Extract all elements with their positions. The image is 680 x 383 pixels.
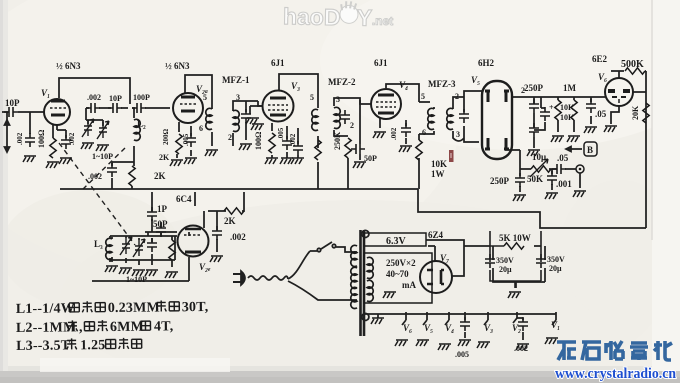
svg-text:6MM: 6MM [110,320,144,335]
svg-text:V₇: V₇ [440,253,449,263]
svg-text:3: 3 [456,130,460,139]
svg-text:V₃: V₃ [484,323,493,333]
svg-text:V₅: V₅ [424,323,433,333]
svg-text:250P: 250P [524,83,544,93]
svg-text:6J1: 6J1 [374,58,388,68]
svg-text:,: , [79,320,83,335]
svg-text:2: 2 [350,121,354,130]
svg-text:10P: 10P [5,98,20,108]
svg-text:2: 2 [228,133,232,142]
svg-text:mA: mA [402,280,416,290]
svg-text:1P: 1P [157,204,168,214]
svg-text:350V: 350V [496,256,514,265]
svg-text:V₆: V₆ [598,72,607,82]
svg-text:250V×2: 250V×2 [386,258,416,268]
svg-text:30T,: 30T, [182,300,209,315]
svg-text:½ 6N3: ½ 6N3 [56,61,81,71]
svg-text:6C4: 6C4 [176,194,192,204]
svg-text:2: 2 [521,86,525,95]
svg-text:10K: 10K [560,113,575,122]
svg-text:.002: .002 [390,127,398,140]
svg-text:.05: .05 [557,153,569,163]
svg-text:6: 6 [422,128,426,137]
svg-text:2K: 2K [154,171,166,181]
svg-text:250P: 250P [490,176,510,186]
svg-text:+: + [549,103,554,112]
svg-text:2K: 2K [159,153,170,162]
svg-text:250K: 250K [333,131,342,150]
svg-text:1.25: 1.25 [80,338,105,353]
svg-text:40~70: 40~70 [386,269,409,279]
svg-text:MFZ-3: MFZ-3 [428,79,456,89]
svg-text:50P: 50P [153,219,168,229]
svg-text:V₂ₑ: V₂ₑ [199,262,211,272]
svg-text:L₃: L₃ [94,239,103,249]
svg-text:6J1: 6J1 [271,58,285,68]
svg-text:.002: .002 [88,172,102,181]
svg-text:V₁: V₁ [41,88,50,98]
svg-text:6: 6 [199,124,203,133]
svg-text:.net: .net [372,14,394,28]
svg-text:10μ: 10μ [532,152,546,162]
svg-text:V₄: V₄ [445,323,454,333]
svg-text:.002: .002 [68,132,76,145]
svg-text:V₆: V₆ [403,323,412,333]
svg-text:.001: .001 [556,179,572,189]
svg-text:200Ω: 200Ω [162,129,170,146]
svg-text:50K: 50K [527,174,543,184]
svg-text:.005: .005 [455,350,469,359]
svg-text:.002: .002 [289,133,297,146]
svg-text:0.23MM: 0.23MM [108,300,160,316]
svg-text:20K: 20K [631,105,640,120]
svg-text:6E2: 6E2 [592,54,608,64]
svg-text:1M: 1M [563,83,577,93]
svg-text:10K: 10K [560,103,575,112]
svg-text:10P: 10P [109,94,122,103]
svg-text:.005: .005 [182,133,190,146]
svg-text:Y: Y [357,4,373,30]
svg-text:V₅: V₅ [471,75,480,85]
svg-text:V₃: V₃ [291,81,300,91]
svg-text:2: 2 [455,92,459,101]
svg-text:100Ω: 100Ω [37,129,46,148]
svg-text:6.3V: 6.3V [386,236,407,247]
svg-text:500K: 500K [621,59,644,70]
svg-text:10K: 10K [431,159,447,169]
svg-text:V₁: V₁ [551,320,560,330]
svg-text:L1--1/4W: L1--1/4W [16,301,75,317]
svg-text:V₂: V₂ [512,323,521,333]
svg-text:3: 3 [236,93,240,102]
svg-text:100P: 100P [133,93,150,102]
svg-text:.002: .002 [16,132,24,145]
svg-text:350V: 350V [547,255,565,264]
svg-text:5: 5 [203,93,207,102]
svg-text:www.crystalradio.cn: www.crystalradio.cn [555,366,677,382]
svg-text:B: B [587,145,593,155]
svg-text:MFZ-1: MFZ-1 [222,75,250,85]
svg-text:MFZ-2: MFZ-2 [328,77,356,87]
svg-text:6H2: 6H2 [478,58,495,68]
svg-text:L2--1MM: L2--1MM [16,320,77,336]
svg-text:20μ: 20μ [549,264,562,273]
svg-text:1W: 1W [431,169,445,179]
svg-text:5: 5 [421,92,425,101]
svg-text:5K 10W: 5K 10W [499,233,531,243]
svg-text:.002: .002 [230,232,246,242]
svg-text:20μ: 20μ [499,265,512,274]
svg-text:.002: .002 [87,93,101,102]
svg-text:6Z4: 6Z4 [428,230,444,240]
svg-text:L₂: L₂ [137,119,146,129]
svg-text:5: 5 [310,93,314,102]
svg-text:.005: .005 [277,127,285,140]
svg-text:L3--3.5T: L3--3.5T [16,338,71,354]
svg-text:4T,: 4T, [154,319,174,334]
svg-text:50P: 50P [364,154,377,163]
svg-text:haoD: haoD [283,3,341,30]
svg-text:1~10P: 1~10P [126,275,147,284]
svg-text:1~10P: 1~10P [92,152,113,161]
svg-text:100Ω: 100Ω [254,131,263,150]
svg-text:V₄: V₄ [399,80,408,90]
svg-text:½ 6N3: ½ 6N3 [165,61,190,71]
svg-text:2K: 2K [224,216,236,226]
svg-text:.002: .002 [514,344,528,353]
svg-text:.05: .05 [595,109,607,119]
svg-text:3: 3 [336,95,340,104]
